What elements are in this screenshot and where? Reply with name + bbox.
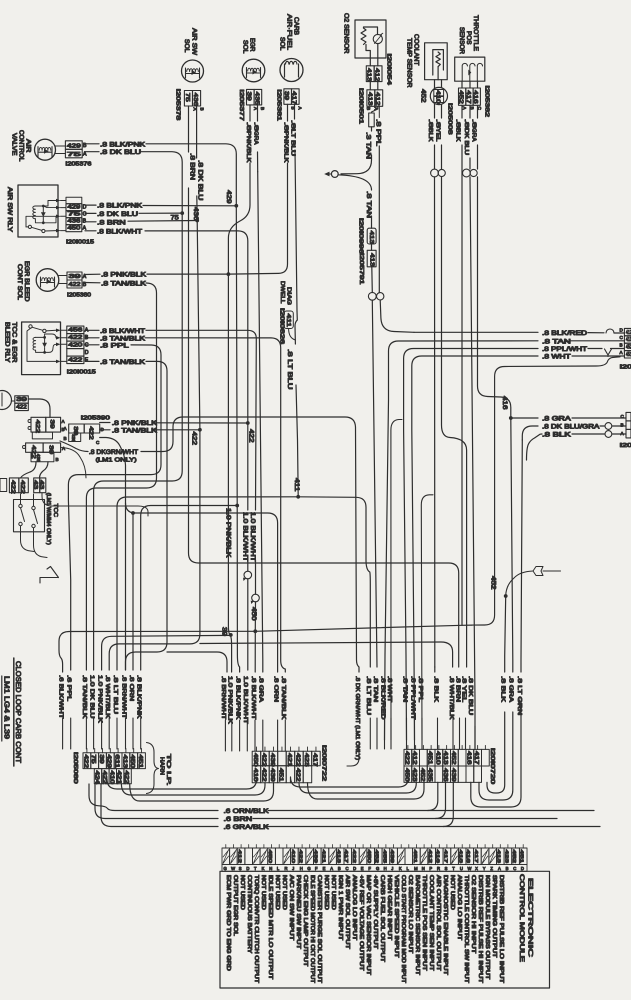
svg-text:452: 452 <box>420 89 426 103</box>
svg-text:411: 411 <box>285 314 291 328</box>
svg-text:.6 ORN/BLK: .6 ORN/BLK <box>224 808 270 815</box>
sensor COOLANT TEMP SENSOR <box>406 34 448 88</box>
svg-text:D: D <box>85 350 89 356</box>
TPS wires continue down <box>470 177 511 750</box>
wire .8 DKGRN/WHT (LM1 only) <box>60 417 359 672</box>
svg-text:.8 PPL: .8 PPL <box>417 676 423 702</box>
svg-text:.8: .8 <box>282 122 288 131</box>
svg-text:412: 412 <box>626 330 631 336</box>
svg-text:U: U <box>460 866 463 871</box>
svg-text:422: 422 <box>294 768 300 782</box>
svg-text:421: 421 <box>320 850 326 864</box>
svg-text:F: F <box>368 866 371 871</box>
svg-text:DIAGNOSTIC ENABLE INPUT: DIAGNOSTIC ENABLE INPUT <box>442 875 448 975</box>
svg-text:NOT USED: NOT USED <box>260 875 266 910</box>
svg-text:H: H <box>384 866 387 871</box>
connector right edge group2 <box>620 412 631 449</box>
svg-text:I20I0996: I20I0996 <box>358 218 364 254</box>
svg-text:.8 LT BLU: .8 LT BLU <box>286 349 293 390</box>
svg-text:CONTROL MODULE: CONTROL MODULE <box>518 874 525 963</box>
svg-text:C: C <box>346 866 349 871</box>
svg-text:G: G <box>307 866 310 871</box>
sensor O2 SENSOR <box>343 13 387 58</box>
wire .8 BLK/RED row <box>414 329 624 337</box>
svg-text:410: 410 <box>108 771 114 785</box>
svg-text:.8 DK BLU: .8 DK BLU <box>197 160 204 201</box>
svg-text:422: 422 <box>68 358 82 364</box>
wire EGR GRA trunk to strip B <box>258 172 263 672</box>
solenoid AIR SW SOL <box>182 28 205 112</box>
svg-text:CARB: CARB <box>293 17 300 35</box>
wire .8 BLK/PNK into strip I205080 <box>136 675 142 749</box>
strip A to strip B loop wires <box>107 779 274 801</box>
svg-text:THROTTLE CONTROL SW INPUT: THROTTLE CONTROL SW INPUT <box>463 875 469 983</box>
svg-text:450: 450 <box>250 607 257 621</box>
wire 450 node horizontal (to strip A + strip C) <box>59 625 472 672</box>
wire .8 WHT/BLK into strip I20I0720 <box>448 676 454 749</box>
wire TPS .8 BLK (452) <box>454 105 462 625</box>
svg-text:439: 439 <box>269 768 275 782</box>
svg-text:NOT USED: NOT USED <box>323 875 329 910</box>
svg-text:K: K <box>399 866 402 871</box>
svg-text:424: 424 <box>94 771 100 785</box>
svg-text:.8 DK BLU: .8 DK BLU <box>100 149 141 156</box>
svg-text:B: B <box>621 423 624 428</box>
half plug symbol (left) <box>40 567 59 584</box>
svg-text:I205791: I205791 <box>358 253 364 285</box>
svg-text:NOT USED: NOT USED <box>449 875 455 910</box>
wire 429 trunk to strip B BLK/PNK <box>236 206 239 672</box>
wire .8 LT GRN label <box>516 676 522 715</box>
wire .6 ORN/BLK <box>89 784 594 815</box>
svg-text:1.0 PNK/BLK: 1.0 PNK/BLK <box>227 676 233 724</box>
svg-text:PARK/NEU SW INPUT: PARK/NEU SW INPUT <box>295 875 301 949</box>
wire AIR SW RLY .8 BLK/PNK (429) <box>85 190 238 210</box>
svg-text:1.0 BLK/WHT: 1.0 BLK/WHT <box>249 512 256 562</box>
wire .8 DK BLU/GRA row <box>522 423 626 440</box>
wire coolant .8 YEL <box>435 104 442 169</box>
svg-text:BLK: BLK <box>427 128 433 142</box>
svg-text:A: A <box>83 152 87 158</box>
solenoid CARB AIR-FUEL SOL <box>279 14 304 111</box>
svg-text:39: 39 <box>49 420 55 429</box>
svg-text:S: S <box>239 866 242 871</box>
wire .8 BRN into strip I20I0720 <box>454 676 460 749</box>
svg-text:423: 423 <box>503 850 509 864</box>
svg-text:452: 452 <box>511 850 517 864</box>
svg-text:.8 TAN/BLK: .8 TAN/BLK <box>280 676 286 720</box>
svg-text:417: 417 <box>473 751 479 765</box>
svg-text:410: 410 <box>434 751 440 765</box>
svg-text:CONTINUOUS BATTERY: CONTINUOUS BATTERY <box>246 875 252 954</box>
connector coolant 410 (circle) <box>420 80 453 135</box>
svg-text:429: 429 <box>67 143 81 149</box>
svg-text:439: 439 <box>450 768 456 782</box>
svg-text:C: C <box>96 440 100 445</box>
inline splice pair TPS wires <box>463 169 478 177</box>
svg-text:HARN: HARN <box>159 757 165 775</box>
svg-text:EGR: EGR <box>249 38 256 52</box>
svg-text:EGR BLEED: EGR BLEED <box>23 261 30 302</box>
svg-text:.8 TAN/BLK: .8 TAN/BLK <box>81 675 87 719</box>
svg-text:75: 75 <box>68 212 81 218</box>
svg-text:75: 75 <box>67 152 81 158</box>
svg-text:DWELL: DWELL <box>279 281 285 304</box>
svg-text:.8 TAN: .8 TAN <box>372 676 378 702</box>
svg-text:.8 GRA: .8 GRA <box>542 416 572 423</box>
svg-text:452: 452 <box>626 345 631 351</box>
svg-text:422: 422 <box>68 335 82 341</box>
svg-text:I205376: I205376 <box>65 162 91 168</box>
svg-text:438: 438 <box>71 434 76 442</box>
connector AIR SW RLY I20I0015 <box>66 197 94 245</box>
svg-text:436: 436 <box>192 93 198 107</box>
connector strip I20I0722 <box>252 745 327 783</box>
svg-text:I20I0501: I20I0501 <box>358 88 364 124</box>
svg-text:.8 BLK: .8 BLK <box>432 676 438 703</box>
svg-text:.8: .8 <box>427 119 433 128</box>
wire AIR SW RLY .8 DK BLU (75) <box>85 211 184 222</box>
svg-text:422: 422 <box>403 751 409 765</box>
wire .8 DK GRN/WHT (LM1 ONLY) into strip I20I0720 <box>347 676 360 766</box>
wire O2 .3 TAN + ground <box>341 132 372 174</box>
brace TO I.P. HARN (strip A) <box>147 743 172 794</box>
wire .8 WHT row <box>412 354 625 741</box>
svg-text:M: M <box>414 866 418 871</box>
svg-text:I20I0722: I20I0722 <box>321 745 327 781</box>
svg-text:39: 39 <box>283 91 289 100</box>
connector row2 422/39 <box>23 443 67 462</box>
svg-text:PNK/BLK: PNK/BLK <box>282 131 288 163</box>
svg-text:413: 413 <box>336 850 342 864</box>
svg-text:.8 LT BLU: .8 LT BLU <box>365 676 371 715</box>
svg-text:I205380: I205380 <box>67 293 91 299</box>
wire .6 GRA/BLK <box>101 784 600 831</box>
wire .8 LT BLU into strip I20I0720 <box>365 676 371 749</box>
svg-text:.3 TAN: .3 TAN <box>364 132 371 159</box>
svg-text:438: 438 <box>36 454 41 462</box>
svg-text:HIGH GEAR INPUT: HIGH GEAR INPUT <box>386 875 392 940</box>
svg-text:N: N <box>422 866 425 871</box>
svg-text:.8 DKGRN/WHT: .8 DKGRN/WHT <box>89 449 138 456</box>
svg-text:I20I0015: I20I0015 <box>66 240 94 246</box>
svg-text:L: L <box>407 866 410 871</box>
svg-text:452: 452 <box>489 576 496 590</box>
svg-text:.8: .8 <box>454 119 460 128</box>
svg-text:416: 416 <box>465 850 471 864</box>
svg-text:39: 39 <box>69 274 81 280</box>
svg-text:I20: I20 <box>620 365 631 371</box>
wire .8 BLK/PNK into strip I20I0722 <box>234 676 240 751</box>
wire GRA vertical continues to band <box>511 418 513 672</box>
wire .8 LT BLU into strip I205080 <box>112 675 118 749</box>
svg-text:AIR SW RLY: AIR SW RLY <box>6 187 13 233</box>
band C upper verticals <box>391 420 433 741</box>
svg-text:C: C <box>620 335 624 340</box>
svg-text:OUTPUT EGR SOL: OUTPUT EGR SOL <box>232 875 238 936</box>
wire TCC RLY .8 TAN/BLK (pin E) <box>86 359 228 672</box>
strip C mid wires join splice runs <box>428 782 454 826</box>
svg-text:.8 PNK/BLK: .8 PNK/BLK <box>101 272 147 279</box>
svg-text:413: 413 <box>496 850 502 864</box>
svg-text:TORQ CONVTR CLUTCH OUTPUT: TORQ CONVTR CLUTCH OUTPUT <box>253 875 259 983</box>
svg-text:1.0 DK BLU: 1.0 DK BLU <box>88 675 94 719</box>
wire coolant .8 BLK <box>427 104 435 169</box>
svg-text:A: A <box>620 350 624 355</box>
svg-text:I20I0720: I20I0720 <box>489 748 495 784</box>
svg-text:IGN 1 PWR INPUT: IGN 1 PWR INPUT <box>337 875 343 940</box>
inline connectors on BLK/WHT wires <box>243 560 259 672</box>
svg-text:TEMP SENSOR: TEMP SENSOR <box>406 38 413 88</box>
svg-text:AIR: AIR <box>25 139 32 153</box>
wire .8 ORN into strip I20I0722 <box>272 676 278 751</box>
svg-text:1.0 PNK/BLK: 1.0 PNK/BLK <box>96 675 102 723</box>
svg-text:AIR SW: AIR SW <box>191 28 198 56</box>
svg-text:.8 WHT/BLK: .8 WHT/BLK <box>104 675 110 719</box>
wire CARB SOL .8 LT BLU (down) <box>289 104 297 311</box>
svg-text:ANALOG LO INPUT: ANALOG LO INPUT <box>351 875 357 940</box>
svg-text:417: 417 <box>442 850 448 864</box>
svg-text:.8 BLK/WHT: .8 BLK/WHT <box>97 228 142 235</box>
svg-text:.8: .8 <box>435 119 441 128</box>
svg-text:412: 412 <box>237 850 243 864</box>
svg-text:417: 417 <box>465 90 471 104</box>
svg-text:X: X <box>475 866 478 871</box>
wire 436 trunk to strip A WHT/BLK <box>109 221 452 671</box>
svg-text:P: P <box>429 866 432 871</box>
svg-text:75: 75 <box>184 93 190 102</box>
svg-text:410: 410 <box>435 90 441 104</box>
svg-text:BAROMETRIC SENSOR INPUT: BAROMETRIC SENSOR INPUT <box>414 875 420 975</box>
wire .8 BLK/RED into strip I20I0720 <box>379 676 385 749</box>
wire 75 trunk to strip A DK BLU <box>94 213 183 670</box>
wire 1.0 PNK/BLK into strip I205080 <box>96 675 102 749</box>
wire .8 TAN/BLK (I205390) <box>100 427 202 445</box>
wires from row2 to small connectors <box>21 448 87 479</box>
ECM pin function list <box>225 875 504 983</box>
svg-text:ELECTRONIC: ELECTRONIC <box>527 878 534 957</box>
svg-text:420: 420 <box>68 343 82 349</box>
svg-text:418: 418 <box>458 850 464 864</box>
svg-text:SOL: SOL <box>279 37 286 51</box>
wire .8 PPL/WHT row <box>404 346 625 740</box>
svg-text:.8 GRA: .8 GRA <box>258 676 264 702</box>
svg-text:IGN MODULE BYPASS OUTPUT: IGN MODULE BYPASS OUTPUT <box>484 875 490 979</box>
svg-text:410: 410 <box>290 850 296 864</box>
svg-text:H: H <box>300 866 303 871</box>
svg-text:75: 75 <box>90 755 96 764</box>
wire AIR SW RLY .8 BRN (436 junction) <box>85 219 199 227</box>
svg-text:456: 456 <box>68 328 82 334</box>
svg-text:COLD START PROGRAM MOD INPUT: COLD START PROGRAM MOD INPUT <box>400 875 406 983</box>
svg-text:C: C <box>513 866 516 871</box>
ECM table box <box>220 871 550 988</box>
svg-text:VEHICLE SPEED INPUT: VEHICLE SPEED INPUT <box>393 875 399 958</box>
wire .6 BRN <box>95 784 557 823</box>
svg-text:.8: .8 <box>463 119 469 128</box>
half plug symbol (right) + branch <box>504 567 561 673</box>
svg-text:W: W <box>231 866 235 871</box>
svg-text:451: 451 <box>427 751 433 765</box>
svg-text:AIR CONTROL SOL OUTPUT: AIR CONTROL SOL OUTPUT <box>435 875 441 971</box>
svg-text:NOT USED: NOT USED <box>274 875 280 910</box>
svg-text:.8 TAN/BLK: .8 TAN/BLK <box>100 335 146 342</box>
svg-text:412: 412 <box>411 751 417 765</box>
svg-text:452: 452 <box>374 850 380 864</box>
svg-text:Z: Z <box>490 866 493 871</box>
svg-text:LM1 LG4 & L39: LM1 LG4 & L39 <box>3 676 12 739</box>
inline box 413 I20I0996 <box>358 218 377 254</box>
wire .8 BLK/WHT into strip I20I0722 <box>250 676 256 751</box>
connector TCC RLY I20I0015 <box>67 326 96 375</box>
wire TPS .8 GRA <box>470 105 477 169</box>
wire O2 .8 PPL <box>375 106 382 292</box>
svg-text:I20: I20 <box>620 443 631 449</box>
svg-text:413: 413 <box>366 92 372 106</box>
svg-text:439: 439 <box>389 850 395 864</box>
svg-text:G: G <box>376 866 379 871</box>
svg-text:D: D <box>246 866 249 871</box>
svg-text:A: A <box>462 107 467 111</box>
svg-text:.8 TAN: .8 TAN <box>542 338 571 345</box>
svg-text:417: 417 <box>343 850 349 864</box>
svg-text:451: 451 <box>277 768 283 782</box>
svg-text:.6 GRA/BLK: .6 GRA/BLK <box>224 824 270 831</box>
svg-text:1.0 BLK/WHT: 1.0 BLK/WHT <box>242 676 248 725</box>
svg-text:.8 DK BLU: .8 DK BLU <box>97 211 138 218</box>
svg-text:435: 435 <box>427 768 433 782</box>
svg-text:G: G <box>224 866 227 871</box>
svg-text:T: T <box>254 866 257 871</box>
svg-text:.8 LT BLU: .8 LT BLU <box>112 675 118 714</box>
svg-text:450: 450 <box>68 226 81 232</box>
svg-text:.8 WHT: .8 WHT <box>542 354 571 361</box>
svg-text:N: N <box>269 866 272 871</box>
svg-text:43: 43 <box>38 480 44 489</box>
wire .8 YEL into strip I20I0720 <box>460 676 466 749</box>
valve AIR CONTROL VALVE <box>11 130 88 162</box>
svg-text:.8 BLK/RED: .8 BLK/RED <box>379 676 385 720</box>
svg-text:I205381: I205381 <box>276 89 282 121</box>
wire .8 GRA label <box>508 676 514 702</box>
svg-text:.8 BLK: .8 BLK <box>542 432 572 439</box>
svg-text:429: 429 <box>106 755 112 769</box>
svg-text:413: 413 <box>442 751 448 765</box>
svg-text:I205390: I205390 <box>81 416 110 422</box>
wire .8 PPL into strip I20I0720 <box>417 676 423 749</box>
wire TCC RLY .8 BLK/WHT <box>86 328 257 510</box>
svg-text:422: 422 <box>34 420 40 434</box>
svg-text:39: 39 <box>246 92 252 101</box>
svg-text:CONT SOL: CONT SOL <box>16 264 23 300</box>
svg-text:.8 ORN: .8 ORN <box>272 676 278 702</box>
solenoid EGR BLEED CONT SOL <box>16 261 91 302</box>
svg-text:422: 422 <box>298 850 304 864</box>
svg-text:(LM1 W/MM4 ONLY): (LM1 W/MM4 ONLY) <box>45 493 51 545</box>
svg-text:411: 411 <box>293 478 300 492</box>
wire .8 PPL/WHT into strip I20I0720 <box>409 676 415 749</box>
svg-text:451: 451 <box>626 352 631 358</box>
svg-text:E: E <box>361 866 364 871</box>
svg-text:IDLE SPEED MOTOR HI CKT OUTPUT: IDLE SPEED MOTOR HI CKT OUTPUT <box>309 875 315 983</box>
svg-text:B: B <box>338 866 341 871</box>
svg-text:A: A <box>64 426 68 431</box>
svg-text:POS: POS <box>465 31 472 45</box>
svg-text:.8 BRN: .8 BRN <box>454 676 460 702</box>
svg-text:AIR·FUEL: AIR·FUEL <box>286 14 293 50</box>
relay TCC & EGR BLEED RLY <box>4 322 67 375</box>
wire TCC RLY .8 PPL <box>68 342 161 670</box>
svg-text:.6 BLK/WHT: .6 BLK/WHT <box>57 675 63 719</box>
svg-text:C: C <box>83 212 87 218</box>
svg-text:CARB FUEL SOL OUTPUT: CARB FUEL SOL OUTPUT <box>379 875 385 962</box>
svg-text:(LM1 ONLY): (LM1 ONLY) <box>96 458 137 464</box>
svg-text:.8 ORN: .8 ORN <box>128 675 134 701</box>
wire .6 PPL into strip I205080 <box>66 675 72 749</box>
svg-text:SENSOR: SENSOR <box>458 27 465 54</box>
svg-text:I205382: I205382 <box>484 86 490 118</box>
svg-text:.8 PNK/BLK: .8 PNK/BLK <box>112 420 158 427</box>
svg-text:.8 TAN: .8 TAN <box>401 676 407 702</box>
wire AIR SW SOL .8 DK BLU / 436 (down) <box>192 106 203 221</box>
wire ACV .8 DK BLU (to 75) <box>86 149 183 213</box>
svg-text:.8 TAN: .8 TAN <box>365 191 372 218</box>
wire .8 BRN/WHT into strip I20I0722 <box>220 676 226 751</box>
connector row1 422/39 <box>28 417 66 439</box>
svg-text:IDLE SPEED MTR LO OUTPUT: IDLE SPEED MTR LO OUTPUT <box>267 875 273 979</box>
svg-text:NOT USED: NOT USED <box>239 875 245 910</box>
sensor THROTTLE POS SENSOR <box>455 15 485 81</box>
wire .8 TAN into strip I20I0720 <box>401 676 407 749</box>
svg-text:.8 PPL: .8 PPL <box>100 342 130 349</box>
svg-text:A: A <box>498 866 501 871</box>
svg-text:SOL: SOL <box>242 40 249 54</box>
svg-text:D: D <box>521 866 524 871</box>
wire EGR BLEED .8 TAN/BLK (422) <box>85 280 157 670</box>
svg-text:.8 PPL/WHT: .8 PPL/WHT <box>409 676 415 720</box>
svg-text:GRA: GRA <box>253 131 259 145</box>
svg-text:DISTRIB REF PULSE HI INPUT: DISTRIB REF PULSE HI INPUT <box>477 875 483 983</box>
wire .8 TAN into strip I20I0720 <box>372 676 378 749</box>
wire ORN drop pair <box>100 438 126 671</box>
svg-text:E: E <box>85 357 89 363</box>
svg-text:439: 439 <box>269 753 275 767</box>
svg-text:611: 611 <box>114 755 120 769</box>
svg-text:422: 422 <box>10 480 16 494</box>
svg-text:451: 451 <box>519 850 525 864</box>
wire .8 TAN below ground <box>338 175 372 228</box>
svg-text:435: 435 <box>253 92 259 105</box>
wire TCC RLY .8 TAN/BLK <box>86 335 286 672</box>
svg-text:.8 BLK/WHT: .8 BLK/WHT <box>100 328 145 335</box>
svg-text:422: 422 <box>248 429 255 443</box>
wire DK BLU/GRA vertical to band LT GRN <box>521 440 522 672</box>
svg-text:CANISTER PURGE SOL OUTPUT: CANISTER PURGE SOL OUTPUT <box>316 875 322 983</box>
svg-text:.8 PPL/WHT: .8 PPL/WHT <box>542 346 587 353</box>
svg-text:B: B <box>506 866 509 871</box>
svg-text:422: 422 <box>69 282 81 288</box>
svg-text:423: 423 <box>303 753 309 767</box>
svg-text:416: 416 <box>435 850 441 864</box>
wire O2 TAN continues to strip C <box>372 300 377 667</box>
svg-text:TCC & EGR: TCC & EGR <box>11 322 18 363</box>
wire 1.0 PNK/BLK into strip I20I0722 <box>227 676 233 751</box>
connector box 39/422 <box>15 396 50 418</box>
strip B to strip C loop wires <box>291 777 425 799</box>
svg-text:412: 412 <box>374 92 380 106</box>
connector strip I20I0720 <box>403 745 495 784</box>
wire .8 ORN into strip I205080 <box>128 675 134 749</box>
